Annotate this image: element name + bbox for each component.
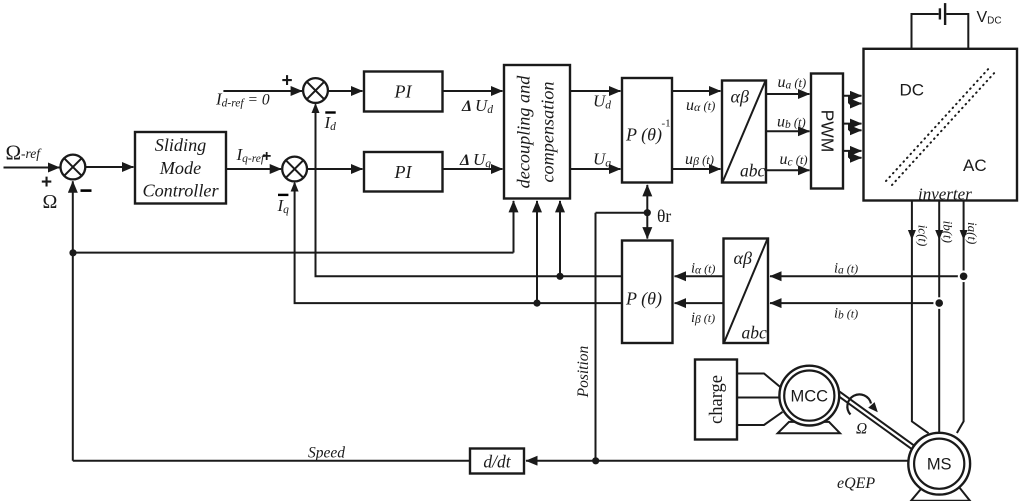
svg-text:+: + bbox=[282, 71, 293, 92]
wire Ptheta-inv to alphabeta-abc ubeta bbox=[672, 168, 721, 170]
svg-text:Ud: Ud bbox=[475, 96, 493, 116]
svg-text:decoupling and: decoupling and bbox=[514, 75, 534, 189]
arrowhead down phase ia bbox=[960, 230, 968, 240]
svg-text:Ud: Ud bbox=[593, 92, 611, 112]
wire decoupling to Ptheta-inv Ud bbox=[570, 90, 621, 92]
svg-text:abc: abc bbox=[742, 323, 768, 343]
junction dot position line on eQEP row bbox=[592, 457, 599, 464]
battery long plate bbox=[944, 3, 946, 25]
svg-text:Mode: Mode bbox=[159, 158, 201, 178]
arrowhead down phase ib bbox=[935, 230, 943, 240]
svg-text:VDC: VDC bbox=[977, 9, 1002, 27]
wire PI1 to decoupling bbox=[443, 90, 503, 92]
junction dot ib tap with halo bbox=[933, 297, 945, 309]
wire id row branch up to decoupling bbox=[559, 201, 561, 276]
svg-text:θr: θr bbox=[657, 206, 671, 226]
block d-dt bbox=[470, 449, 524, 474]
wire inverter dotted diagonal 1 bbox=[886, 66, 991, 181]
svg-text:+: + bbox=[262, 148, 271, 165]
wire Ptheta iq output row to Iq junction bbox=[295, 183, 622, 303]
block alphabeta-abc voltage transform bbox=[722, 81, 766, 183]
node Id summing junction bbox=[303, 78, 328, 103]
svg-text:P (θ): P (θ) bbox=[625, 125, 662, 146]
block PI2 bbox=[364, 152, 443, 192]
svg-text:PI: PI bbox=[394, 162, 413, 182]
svg-text:ic(t): ic(t) bbox=[916, 225, 931, 247]
wire theta-r down into Ptheta bbox=[646, 213, 648, 239]
svg-text:Id: Id bbox=[324, 113, 337, 133]
label minus at omega junction bbox=[81, 189, 92, 192]
svg-text:Δ: Δ bbox=[461, 98, 472, 115]
svg-text:Iq: Iq bbox=[277, 196, 290, 216]
wire d-dt output speed line bbox=[73, 460, 470, 462]
node omega summing junction bbox=[61, 155, 86, 180]
wire speed feedback vertical to omega junction bbox=[72, 181, 74, 460]
svg-text:uc (t): uc (t) bbox=[780, 151, 808, 169]
wire phase line ic from inverter bbox=[912, 201, 929, 434]
wire omega junction to SMC bbox=[85, 166, 133, 168]
block SMC sliding mode controller bbox=[135, 132, 226, 204]
battery VDC circuit wires bbox=[912, 14, 969, 49]
svg-text:AC: AC bbox=[963, 156, 987, 175]
block PWM bbox=[811, 74, 843, 189]
svg-text:uβ (t): uβ (t) bbox=[685, 151, 714, 168]
wire theta-r up into Ptheta-inverse bbox=[646, 185, 648, 213]
wire iq row branch up to decoupling bbox=[536, 201, 538, 303]
block charge bbox=[695, 360, 737, 440]
arrowhead up into Id junction bbox=[312, 103, 320, 113]
label Iq-bar feedback bbox=[278, 194, 288, 196]
junction dot theta-r bbox=[644, 209, 651, 216]
wire Iq junction to PI2 bbox=[307, 168, 363, 170]
svg-text:iα (t): iα (t) bbox=[691, 261, 715, 277]
svg-text:Position: Position bbox=[575, 345, 592, 398]
svg-text:Δ: Δ bbox=[459, 152, 470, 169]
svg-text:Controller: Controller bbox=[142, 181, 219, 201]
svg-text:Ω: Ω bbox=[6, 141, 22, 165]
wire Id-ref input bbox=[223, 90, 302, 92]
wire Ptheta id output row to Id junction bbox=[316, 104, 623, 276]
wire PI2 to decoupling bbox=[443, 168, 503, 170]
svg-text:-1: -1 bbox=[662, 118, 671, 130]
svg-text:abc: abc bbox=[740, 161, 766, 181]
svg-text:Uq: Uq bbox=[593, 150, 611, 170]
wire speed row to decoupling bbox=[73, 252, 514, 254]
wire ua to PWM bbox=[766, 93, 810, 95]
block PI1 bbox=[364, 72, 443, 112]
svg-text:charge: charge bbox=[707, 375, 727, 424]
motor MCC outer circle bbox=[779, 366, 839, 426]
wire theta-r horizontal to position line bbox=[596, 212, 648, 214]
svg-text:MS: MS bbox=[927, 456, 952, 474]
wire PWM gate signals group2 bbox=[843, 124, 862, 131]
svg-text:ib(t): ib(t) bbox=[941, 221, 956, 243]
svg-text:ib (t): ib (t) bbox=[834, 305, 858, 321]
block inverter bbox=[864, 49, 1018, 201]
svg-text:MCC: MCC bbox=[791, 388, 829, 406]
wire Id junction to PI1 bbox=[328, 90, 363, 92]
shaft MCC to MS double line bbox=[832, 388, 917, 452]
wire uc to PWM bbox=[766, 169, 810, 171]
svg-text:PWM: PWM bbox=[818, 110, 838, 153]
wire omega-ref input bbox=[4, 167, 60, 169]
block Ptheta bbox=[622, 241, 673, 344]
svg-text:Uq: Uq bbox=[473, 150, 491, 170]
wire eQEP position line MS to d-dt bbox=[526, 460, 908, 462]
wire phase line ia from inverter bbox=[957, 201, 964, 434]
wire PWM gate signals group3 bbox=[843, 151, 862, 158]
junction dot omega feedback branch bbox=[69, 249, 76, 256]
motor MS outer circle bbox=[908, 433, 970, 495]
svg-text:uα (t): uα (t) bbox=[686, 97, 715, 114]
arrowhead down phase ic bbox=[908, 230, 916, 240]
block Ptheta-inverse bbox=[622, 78, 672, 183]
svg-text:Sliding: Sliding bbox=[155, 135, 207, 155]
node Iq summing junction bbox=[282, 157, 307, 182]
wire SMC to Iq junction bbox=[226, 168, 281, 170]
wire phase line ib from inverter bbox=[938, 201, 940, 433]
svg-text:αβ: αβ bbox=[734, 248, 752, 268]
svg-text:compensation: compensation bbox=[538, 81, 558, 182]
wire ub to PWM bbox=[766, 130, 810, 132]
svg-text:αβ: αβ bbox=[731, 87, 749, 107]
motor MS foot bbox=[911, 488, 970, 501]
svg-text:ub (t): ub (t) bbox=[777, 114, 806, 132]
svg-text:Ω: Ω bbox=[856, 421, 867, 438]
wire ib tap to abc-alphabeta bbox=[770, 302, 939, 304]
wire Ptheta-inv to alphabeta-abc ualpha bbox=[672, 90, 721, 92]
svg-text:inverter: inverter bbox=[918, 185, 972, 204]
svg-text:PI: PI bbox=[394, 82, 413, 102]
wire charge to MCC bottom lead bbox=[737, 412, 783, 425]
wire inverter dotted diagonal 2 bbox=[892, 70, 997, 185]
wire ibeta to Ptheta bbox=[675, 302, 724, 304]
wire charge to MCC middle lead bbox=[737, 397, 780, 399]
svg-text:+: + bbox=[41, 172, 52, 193]
svg-text:Id-ref = 0: Id-ref = 0 bbox=[215, 90, 270, 110]
wire ialpha to Ptheta bbox=[675, 275, 724, 277]
junction dot iq row to decoupling bbox=[533, 300, 540, 307]
junction dot ia tap with halo bbox=[958, 271, 970, 283]
motor MCC inner circle bbox=[784, 371, 834, 421]
battery short plate bbox=[939, 8, 941, 19]
wire charge to MCC top lead bbox=[737, 374, 780, 387]
wire position vertical line bbox=[595, 213, 597, 461]
wire PWM gate signals group1 bbox=[843, 96, 862, 104]
arrowhead up into Iq junction bbox=[291, 182, 299, 192]
wire ia tap to abc-alphabeta bbox=[770, 275, 964, 277]
arrowhead of rotation arc bbox=[868, 402, 878, 412]
motor MS inner circle bbox=[914, 439, 964, 489]
svg-text:eQEP: eQEP bbox=[837, 475, 875, 492]
label Id-bar feedback bbox=[325, 111, 335, 113]
svg-text:Ω: Ω bbox=[43, 191, 58, 213]
junction dot id row to decoupling bbox=[556, 273, 563, 280]
motor MCC foot bbox=[778, 422, 840, 433]
rotation arrow arc over shaft bbox=[847, 394, 871, 414]
svg-text:Speed: Speed bbox=[308, 445, 345, 462]
svg-text:DC: DC bbox=[900, 81, 925, 100]
svg-text:iβ (t): iβ (t) bbox=[691, 310, 715, 326]
svg-text:d/dt: d/dt bbox=[483, 452, 511, 472]
svg-text:P (θ): P (θ) bbox=[625, 289, 662, 310]
wire decoupling to Ptheta-inv Uq bbox=[570, 168, 621, 170]
block abc-alphabeta current transform bbox=[724, 239, 769, 344]
svg-text:ia(t): ia(t) bbox=[965, 222, 980, 244]
block decoupling and compensation bbox=[504, 65, 570, 199]
svg-text:ia (t): ia (t) bbox=[834, 260, 858, 276]
svg-text:-ref: -ref bbox=[21, 146, 42, 161]
svg-text:ua (t): ua (t) bbox=[778, 74, 807, 92]
